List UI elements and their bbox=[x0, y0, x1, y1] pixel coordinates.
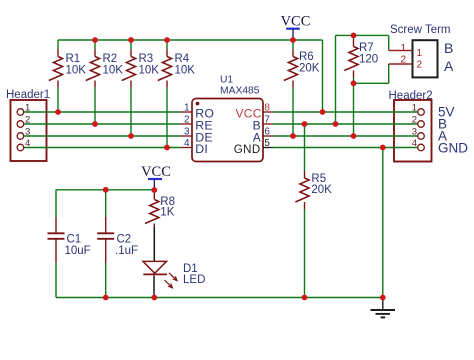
svg-text:R1: R1 bbox=[66, 53, 81, 65]
svg-text:R7: R7 bbox=[359, 42, 374, 54]
svg-text:LED: LED bbox=[183, 274, 205, 286]
svg-text:U1: U1 bbox=[220, 75, 233, 86]
svg-text:MAX485: MAX485 bbox=[220, 86, 260, 97]
svg-text:5: 5 bbox=[264, 138, 270, 149]
svg-text:VCC: VCC bbox=[141, 164, 171, 180]
svg-text:2: 2 bbox=[25, 115, 30, 126]
svg-text:C1: C1 bbox=[67, 234, 82, 246]
svg-text:R6: R6 bbox=[299, 51, 314, 63]
svg-text:8: 8 bbox=[264, 102, 270, 113]
svg-text:DI: DI bbox=[195, 142, 208, 156]
svg-text:3: 3 bbox=[25, 127, 30, 138]
svg-text:VCC: VCC bbox=[281, 13, 311, 29]
svg-text:6: 6 bbox=[264, 126, 270, 137]
svg-text:B: B bbox=[444, 40, 453, 56]
svg-text:3: 3 bbox=[184, 126, 190, 137]
svg-text:1: 1 bbox=[412, 103, 417, 114]
svg-text:R3: R3 bbox=[139, 53, 154, 65]
svg-text:2: 2 bbox=[184, 114, 190, 125]
svg-text:R2: R2 bbox=[103, 53, 118, 65]
svg-text:10K: 10K bbox=[66, 65, 87, 77]
svg-text:4: 4 bbox=[25, 138, 30, 149]
svg-text:Header1: Header1 bbox=[6, 89, 50, 101]
svg-text:2: 2 bbox=[412, 115, 417, 126]
svg-text:2: 2 bbox=[417, 60, 423, 71]
svg-text:10uF: 10uF bbox=[65, 245, 91, 257]
svg-text:10K: 10K bbox=[175, 65, 196, 77]
svg-text:7: 7 bbox=[264, 114, 270, 125]
svg-text:1: 1 bbox=[417, 48, 423, 59]
svg-text:A: A bbox=[253, 130, 261, 144]
svg-text:20K: 20K bbox=[299, 63, 320, 75]
svg-text:R4: R4 bbox=[175, 53, 190, 65]
svg-text:1K: 1K bbox=[160, 207, 174, 219]
svg-text:Header2: Header2 bbox=[389, 90, 433, 102]
svg-text:10K: 10K bbox=[103, 65, 124, 77]
svg-text:120: 120 bbox=[359, 54, 378, 66]
svg-text:C2: C2 bbox=[117, 234, 132, 246]
svg-text:4: 4 bbox=[184, 138, 190, 149]
svg-text:1: 1 bbox=[184, 102, 190, 113]
svg-text:A: A bbox=[444, 58, 454, 74]
svg-text:3: 3 bbox=[412, 127, 417, 138]
svg-text:GND: GND bbox=[438, 141, 468, 156]
svg-text:GND: GND bbox=[234, 144, 261, 156]
svg-text:1: 1 bbox=[400, 43, 406, 54]
svg-text:20K: 20K bbox=[311, 184, 332, 196]
svg-text:2: 2 bbox=[400, 55, 406, 66]
svg-text:4: 4 bbox=[412, 138, 417, 149]
svg-text:10K: 10K bbox=[139, 65, 160, 77]
svg-text:Screw Term: Screw Term bbox=[390, 24, 451, 36]
svg-text:.1uF: .1uF bbox=[115, 245, 138, 257]
svg-text:1: 1 bbox=[25, 103, 30, 114]
